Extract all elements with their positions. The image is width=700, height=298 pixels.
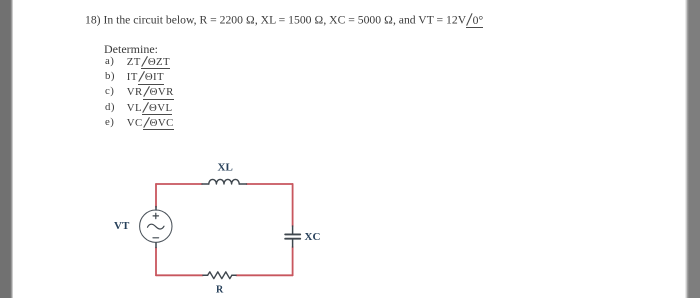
resistor R zigzag <box>208 272 232 279</box>
item e <box>105 117 114 128</box>
source VT minus sign <box>153 237 159 239</box>
wire top-right segment <box>247 183 293 185</box>
inductor XL left lead <box>202 183 209 185</box>
capacitor XC top plate <box>285 233 300 235</box>
item c <box>105 86 114 97</box>
source VT circle <box>140 210 172 242</box>
resistor R right lead <box>232 274 236 276</box>
source VT sine wave <box>148 224 165 229</box>
wire right upper segment <box>292 184 294 226</box>
item a <box>105 56 114 67</box>
wire left upper segment <box>155 184 157 207</box>
Determine heading <box>104 43 158 55</box>
item d <box>105 102 115 113</box>
svg-text:XC: XC <box>305 231 321 243</box>
right scan border bar <box>685 0 700 298</box>
wire bottom-left segment <box>156 274 203 276</box>
problem title <box>85 13 483 26</box>
left scan border bar <box>0 0 13 298</box>
item b <box>105 71 115 82</box>
svg-text:XL: XL <box>218 162 233 174</box>
wire right lower segment <box>292 247 294 275</box>
capacitor XC bottom plate <box>285 238 300 240</box>
wire bottom-right segment <box>236 274 293 276</box>
source VT plus sign <box>153 213 158 218</box>
wire top-left segment <box>156 183 202 185</box>
capacitor XC bottom lead <box>292 240 294 248</box>
svg-text:VT: VT <box>114 220 130 232</box>
source VT bottom lead <box>155 243 157 248</box>
source VT top lead <box>155 207 157 211</box>
capacitor XC top lead <box>292 226 294 234</box>
svg-text:R: R <box>216 284 224 295</box>
inductor XL right lead <box>239 183 246 185</box>
inductor XL coils <box>209 179 239 184</box>
wire left lower segment <box>155 248 157 276</box>
resistor R left lead <box>203 274 208 276</box>
